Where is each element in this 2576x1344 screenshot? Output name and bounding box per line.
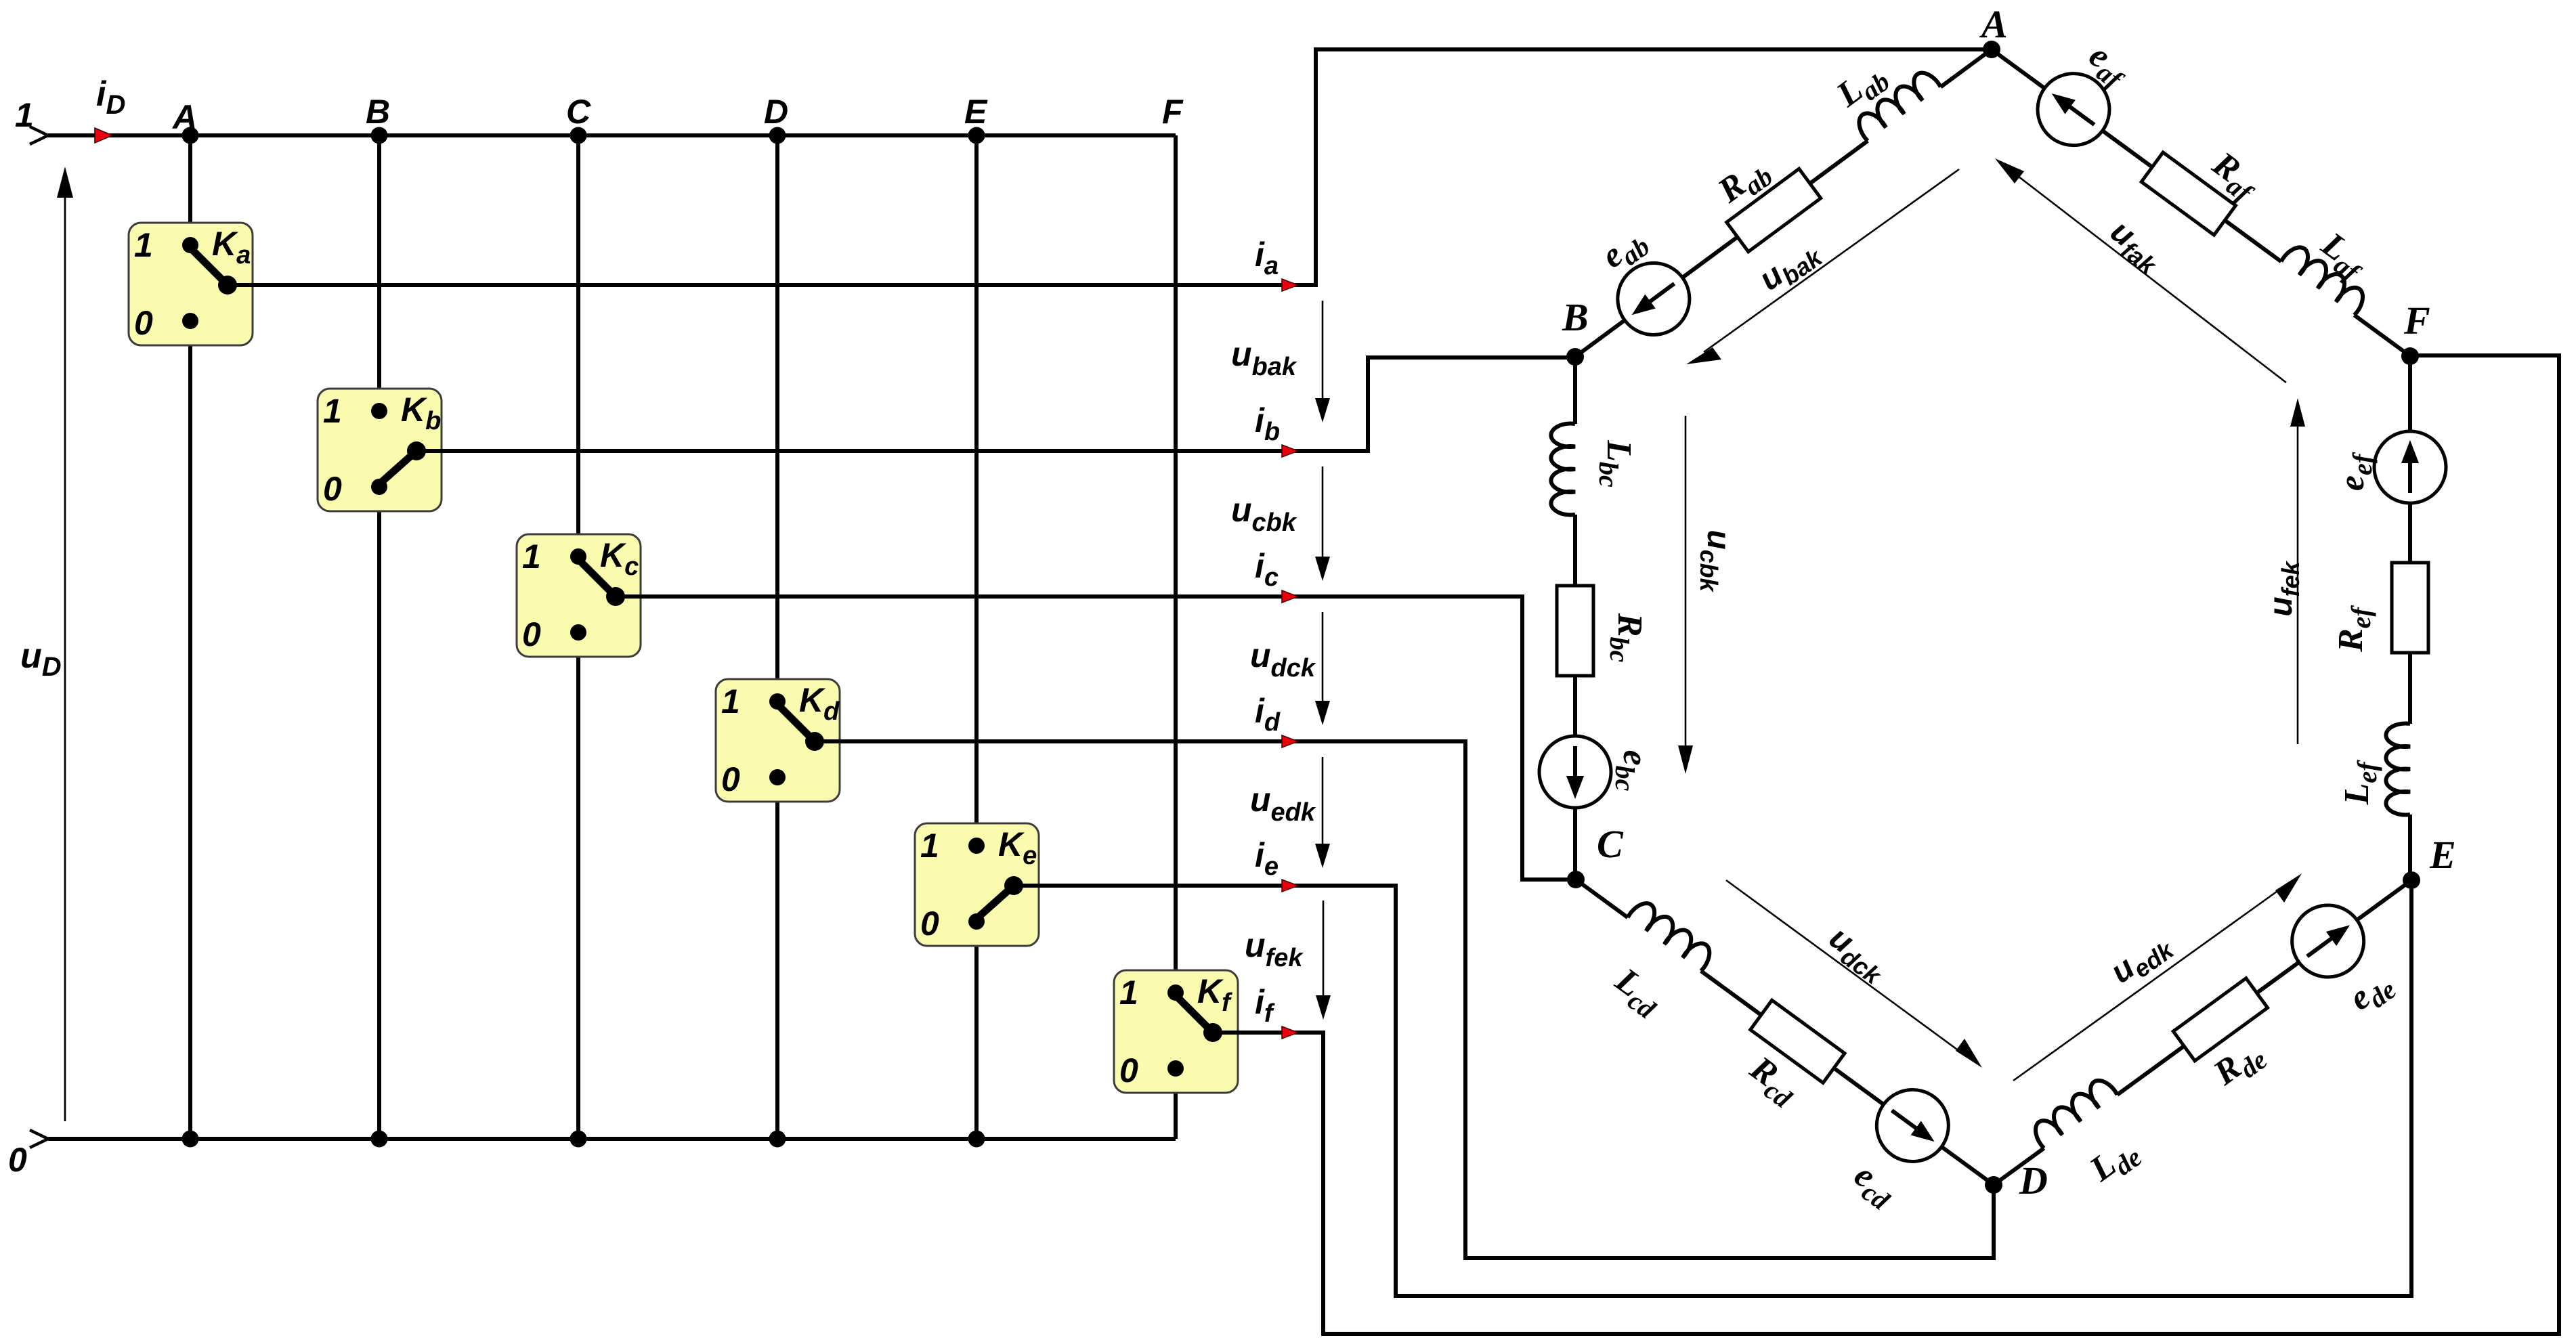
wire column B upper — [377, 135, 381, 411]
wire — [2408, 502, 2412, 563]
label R_ef — [2332, 605, 2376, 652]
arrow uedk (matrix) — [1315, 757, 1330, 868]
branch A-F — [1971, 20, 2432, 385]
junction A top — [182, 127, 199, 144]
wire — [1576, 880, 1628, 917]
wire — [1941, 1147, 1994, 1185]
inductor L_ef — [2386, 724, 2410, 815]
inductor L_cd — [1627, 898, 1715, 971]
branch B-C — [1539, 357, 1611, 880]
label e_de — [2342, 963, 2401, 1023]
node D — [1985, 1176, 2002, 1194]
label e_bc — [1610, 750, 1654, 792]
arrow u_edk (hexagon) — [2013, 873, 2302, 1081]
switch Ke — [915, 823, 1039, 946]
svg-text:1: 1 — [920, 827, 939, 865]
switch Kc — [517, 534, 641, 657]
wire — [2357, 880, 2412, 920]
svg-text:1: 1 — [134, 226, 153, 264]
svg-text:0: 0 — [522, 615, 541, 653]
switch Kf — [1114, 970, 1238, 1093]
junction C bottom — [570, 1131, 587, 1148]
node C — [1567, 871, 1585, 888]
svg-text:E: E — [2429, 833, 2456, 877]
wire column D upper — [775, 135, 779, 701]
red arrow id — [1282, 735, 1298, 747]
wire — [1573, 808, 1577, 880]
arrow ucbk (matrix) — [1315, 467, 1330, 581]
svg-text:1: 1 — [522, 538, 541, 576]
junction B bottom — [371, 1131, 388, 1148]
svg-text:F: F — [1162, 93, 1184, 131]
svg-text:D: D — [764, 93, 788, 131]
node F — [2401, 347, 2419, 365]
red arrow ib — [1282, 445, 1298, 457]
source e_de — [2278, 891, 2378, 991]
resistor R_de — [2173, 978, 2267, 1061]
svg-text:A: A — [1979, 2, 2008, 46]
arrow u_fek (hexagon) — [2290, 398, 2305, 744]
svg-text:E: E — [964, 93, 988, 131]
label e_af — [2078, 36, 2138, 96]
node dots on buses — [182, 127, 985, 1148]
svg-text:0: 0 — [323, 470, 342, 508]
label e_cd — [1844, 1156, 1904, 1217]
label R_de — [2206, 1033, 2273, 1098]
inductor L_af — [2281, 242, 2369, 315]
resistor R_bc — [1557, 586, 1593, 676]
wire — [2355, 315, 2410, 355]
label L_ab — [1829, 54, 1895, 119]
svg-text:A: A — [171, 98, 197, 136]
wire column E upper — [974, 135, 979, 846]
svg-text:0: 0 — [134, 304, 153, 342]
label R_cd — [1739, 1049, 1806, 1114]
label L_af — [2311, 225, 2375, 288]
svg-text:B: B — [366, 93, 390, 131]
red arrow iD — [95, 128, 112, 143]
wire — [1575, 320, 1626, 357]
source e_cd — [1862, 1075, 1962, 1175]
wire — [1994, 1148, 2044, 1185]
svg-text:0: 0 — [8, 1141, 27, 1179]
wire — [2225, 220, 2281, 261]
label e_ef — [2333, 452, 2378, 491]
branch F-E — [2374, 356, 2446, 880]
arrow u_bak (hexagon) — [1686, 169, 1959, 364]
wire column F lower — [1174, 1068, 1178, 1139]
label u_cbk (hexagon) — [1695, 529, 1736, 592]
wire — [1992, 49, 2046, 89]
branch B-A — [1554, 21, 2013, 386]
resistor R_ab — [1727, 169, 1821, 251]
inductor L_ab — [1853, 68, 1941, 142]
arrow ufek (matrix) — [1316, 901, 1331, 1020]
wire — [1834, 1068, 1883, 1104]
wire column A lower — [188, 321, 192, 1139]
svg-text:1: 1 — [323, 392, 342, 430]
bus 0 (bottom DC rail) — [48, 1137, 1176, 1141]
svg-text:1: 1 — [15, 96, 34, 134]
label R_ab — [1711, 149, 1778, 215]
junction D bottom — [769, 1131, 786, 1148]
wire — [1573, 515, 1577, 586]
junction E bottom — [968, 1131, 985, 1148]
svg-text:1: 1 — [1119, 974, 1138, 1012]
label u_bak (hexagon) — [1753, 232, 1828, 302]
wire ib (Kb common to node B) — [416, 357, 1575, 451]
arrow ubak (matrix) — [1315, 301, 1330, 422]
junction C top — [570, 127, 587, 144]
label u_dck (hexagon) — [1820, 919, 1895, 990]
source e_ab — [1604, 248, 1704, 349]
bus 1 (top DC rail) — [48, 133, 1176, 137]
label u_fak (hexagon) — [2101, 213, 2170, 280]
svg-text:C: C — [1597, 822, 1624, 866]
label R_bc — [1604, 613, 1649, 663]
label L_de — [2082, 1130, 2147, 1194]
junction A bottom — [182, 1131, 199, 1148]
red arrow ic — [1282, 590, 1298, 603]
wire — [2408, 653, 2412, 724]
bus 0 input chevron — [30, 1130, 48, 1148]
wire column A upper — [188, 135, 192, 245]
inductor L_bc — [1551, 424, 1575, 515]
arrow udck (matrix) — [1315, 612, 1330, 725]
wire — [1681, 237, 1738, 278]
source e_ef — [2374, 431, 2446, 503]
wire if (Kf common to node F) — [1213, 355, 2559, 1334]
svg-text:1: 1 — [721, 682, 740, 720]
svg-text:F: F — [2403, 299, 2430, 343]
junction D top — [769, 127, 786, 144]
resistor R_cd — [1751, 1000, 1845, 1083]
node A — [1983, 41, 2000, 58]
svg-text:0: 0 — [1119, 1052, 1138, 1089]
label u_fek (hexagon) — [2263, 560, 2304, 616]
switch Ka — [129, 223, 253, 345]
svg-text:0: 0 — [920, 905, 939, 942]
junction B top — [371, 127, 388, 144]
wire — [2408, 356, 2412, 433]
wire column F upper — [1174, 135, 1178, 993]
svg-text:C: C — [566, 93, 591, 131]
bus 1 input chevron — [30, 127, 48, 144]
wire ie (Ke common to node E) — [1014, 880, 2411, 1296]
switch Kd — [716, 679, 840, 802]
node B — [1566, 348, 1584, 366]
wire — [2408, 815, 2412, 880]
svg-text:D: D — [2019, 1158, 2048, 1202]
wire id (Kd common to node D) — [815, 741, 1994, 1258]
switch Kb — [318, 389, 442, 511]
wire column B lower — [377, 487, 381, 1139]
wire ic (Kc common to node C) — [616, 597, 1576, 880]
red arrow ia — [1282, 279, 1298, 291]
wire — [1810, 141, 1868, 183]
source e_bc — [1539, 736, 1611, 808]
wire — [1701, 971, 1761, 1015]
wire — [2118, 1046, 2185, 1095]
arrow u_dck (hexagon) — [1726, 880, 1982, 1068]
arrow u_fak (hexagon) — [1995, 158, 2286, 383]
wire — [2101, 130, 2152, 167]
branch D-E — [1973, 851, 2433, 1214]
source e_af — [2023, 60, 2124, 160]
wire column C lower — [576, 632, 580, 1139]
label L_cd — [1604, 960, 1670, 1024]
red arrow if — [1282, 1026, 1298, 1039]
red arrow ie — [1282, 880, 1298, 892]
u_D measurement arrow — [57, 167, 73, 1121]
node E — [2403, 871, 2420, 889]
label e_ab — [1594, 219, 1655, 281]
wire column C upper — [576, 135, 580, 557]
wire — [1573, 676, 1577, 736]
wire — [1941, 49, 1992, 87]
branch C-D — [1555, 850, 2015, 1213]
label L_ef — [2338, 760, 2382, 806]
wire column D lower — [775, 777, 779, 1139]
label R_af — [2202, 144, 2268, 209]
inductor L_de — [2030, 1075, 2118, 1148]
label u_edk (hexagon) — [2104, 924, 2179, 995]
svg-text:0: 0 — [721, 760, 740, 798]
label L_bc — [1593, 439, 1638, 487]
wire — [2257, 962, 2299, 993]
wire ia (Ka common to node A) — [228, 49, 1992, 285]
arrow u_cbk (hexagon) — [1678, 416, 1693, 774]
resistor R_ef — [2392, 563, 2428, 653]
resistor R_af — [2141, 152, 2235, 235]
svg-text:B: B — [1562, 295, 1589, 339]
junction E top — [968, 127, 985, 144]
wire column E lower — [974, 922, 979, 1139]
wire — [1573, 357, 1577, 424]
